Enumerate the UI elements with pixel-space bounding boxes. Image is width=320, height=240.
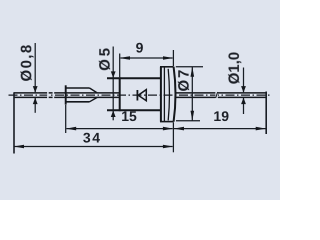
dimension 15 xyxy=(66,105,173,133)
taper to wire xyxy=(90,88,98,93)
extension line at mounting plane xyxy=(172,122,174,152)
dimension 34 xyxy=(14,92,173,153)
svg-text:9: 9 xyxy=(136,40,144,56)
svg-text:15: 15 xyxy=(121,108,137,124)
dimension D5 (body dia) xyxy=(112,47,114,121)
svg-text:34: 34 xyxy=(83,130,102,146)
svg-text:Ø1,0: Ø1,0 xyxy=(226,52,243,85)
left lead (anode wire) xyxy=(14,93,120,98)
dimension 9 (body length) xyxy=(120,50,174,77)
left lead break xyxy=(47,92,54,99)
dimension D1,0 (right lead dia) xyxy=(243,68,245,115)
body (case cylinder) xyxy=(107,77,161,111)
svg-text:Ø7: Ø7 xyxy=(176,68,193,92)
right lead break xyxy=(215,92,217,99)
flange (mounting disc) xyxy=(160,67,176,122)
dimension D7 (flange dia) xyxy=(176,67,203,121)
lead sleeve (crimp) xyxy=(66,85,98,104)
svg-text:Ø0,8: Ø0,8 xyxy=(18,43,35,81)
right lead (cathode wire) xyxy=(176,93,267,98)
dimension 19 xyxy=(174,92,266,135)
axis centerline xyxy=(9,94,272,96)
svg-text:Ø5: Ø5 xyxy=(97,45,114,71)
dimension D0,8 (left lead dia) xyxy=(34,43,36,113)
diode symbol xyxy=(137,90,146,101)
svg-text:19: 19 xyxy=(213,108,229,124)
